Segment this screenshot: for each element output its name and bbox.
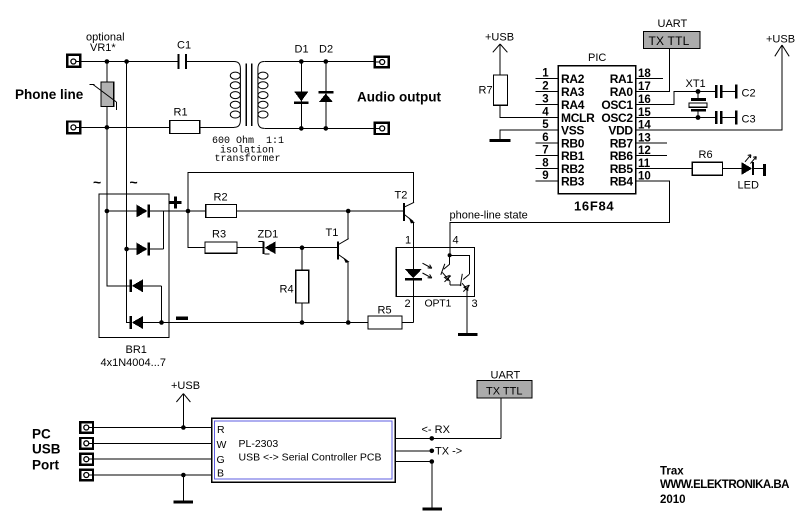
svg-text:VDD: VDD: [608, 123, 633, 137]
svg-text:PC: PC: [32, 426, 51, 441]
transistor T2: [395, 190, 415, 248]
node bridge in1: [105, 209, 110, 214]
node bridge in2: [124, 247, 129, 252]
svg-text:RB1: RB1: [561, 149, 585, 163]
wire C1 to transformer: [187, 61, 234, 63]
power arrow +USB bottom: [176, 394, 190, 428]
wire R3 to ZD1: [237, 247, 263, 249]
node plus junction: [186, 209, 191, 214]
svg-text:ZD1: ZD1: [258, 229, 279, 241]
svg-text:10: 10: [638, 171, 651, 183]
wire line1 to diode3: [107, 211, 130, 286]
svg-text:RA4: RA4: [561, 98, 585, 112]
ground USB: [174, 500, 194, 503]
pin stub 12: [636, 155, 668, 157]
wire secondary bottom rail: [264, 127, 374, 129]
wire line2 to diode4: [127, 249, 130, 323]
opto darlington transistor B: [460, 274, 469, 297]
resistor R6: [692, 149, 722, 175]
svg-text:6: 6: [542, 132, 548, 144]
svg-text:PIC: PIC: [588, 52, 606, 64]
svg-text:R6: R6: [699, 149, 713, 161]
wire R6 to LED: [722, 168, 741, 170]
wire minus rail: [169, 322, 368, 324]
svg-text:1: 1: [405, 235, 411, 247]
svg-text:TX ->: TX ->: [435, 445, 462, 457]
svg-text:R7: R7: [479, 84, 493, 96]
wire RB4 to OPT1 pin4: [450, 181, 669, 247]
capacitor C3: [715, 111, 755, 126]
IC U1 PIC box: [558, 66, 636, 194]
label 600 Ohm isolation transformer: [212, 135, 284, 165]
LED arrows: [745, 155, 756, 164]
wire R7 to MCLR: [500, 105, 558, 117]
svg-text:RB6: RB6: [610, 149, 634, 163]
svg-text:RA0: RA0: [610, 85, 634, 99]
node junction D1 top: [299, 59, 304, 64]
svg-text:VR1*: VR1*: [90, 42, 116, 54]
svg-text:transformer: transformer: [215, 153, 281, 165]
bridge diode 3: [130, 279, 162, 292]
node gnd corner: [430, 459, 435, 464]
terminal USB 1: [80, 422, 95, 433]
terminal audio bottom: [374, 123, 389, 134]
pin names right: [601, 72, 633, 188]
block PL-2303: [212, 418, 396, 482]
capacitor C1: [177, 40, 191, 70]
svg-text:Phone line: Phone line: [15, 87, 84, 102]
pin numbers right: [638, 68, 651, 183]
terminal USB 3: [80, 454, 95, 465]
svg-text:LED: LED: [738, 180, 759, 192]
opto darlington transistor A: [441, 247, 462, 285]
wire VSS to ground: [500, 130, 558, 139]
svg-text:<- RX: <- RX: [422, 424, 451, 436]
svg-text:4: 4: [542, 107, 549, 119]
svg-text:1: 1: [542, 68, 549, 80]
transformer T600 primary: [230, 62, 240, 128]
block TX TTL bottom: [477, 381, 532, 399]
svg-text:~: ~: [93, 174, 101, 190]
wire bridge minus link: [161, 286, 163, 323]
pin numbers left: [542, 68, 549, 183]
svg-text:9: 9: [542, 170, 548, 182]
bridge BR1 box: [99, 194, 169, 338]
svg-text:C3: C3: [742, 113, 756, 125]
transformer T600 secondary: [258, 62, 268, 129]
svg-text:G: G: [217, 454, 225, 466]
wire gnd down: [431, 462, 433, 508]
pin stub 13: [636, 142, 668, 144]
wire USB green: [95, 458, 212, 460]
wire black to ground: [182, 475, 184, 500]
svg-text:+USB: +USB: [485, 31, 514, 43]
svg-text:2010: 2010: [660, 494, 686, 506]
wire USB black: [95, 474, 212, 476]
opto coupling arrows: [423, 263, 432, 278]
node junction D2 top: [324, 59, 329, 64]
pin stubs left unconnected: [536, 79, 559, 182]
wire opto collector link: [450, 255, 470, 274]
wire TX TTL to RX: [500, 398, 502, 438]
svg-text:WWW.ELEKTRONIKA.BA: WWW.ELEKTRONIKA.BA: [660, 479, 789, 491]
wire USB white: [95, 442, 212, 444]
wire TX: [395, 450, 432, 452]
crystal XT1: [686, 78, 708, 118]
svg-text:8: 8: [542, 158, 549, 170]
svg-text:R2: R2: [214, 191, 228, 203]
wire ring to R1: [82, 126, 170, 128]
wire RX: [395, 437, 501, 439]
node junction A1: [105, 59, 110, 64]
node XT1 bottom: [696, 115, 701, 120]
zener diode ZD1: [258, 229, 279, 255]
opto LED: [405, 247, 422, 322]
wire top loop to T2 collector: [188, 172, 414, 211]
wire R5 to OPT1 pin2: [402, 322, 413, 324]
svg-text:B: B: [217, 467, 224, 479]
wire XT1 top to C2: [698, 91, 715, 93]
varistor VR1: [90, 62, 117, 128]
ground serial: [422, 507, 442, 510]
wire bridge plus link: [163, 211, 165, 249]
node bridge minus: [159, 320, 164, 325]
pin names left: [561, 72, 595, 188]
ground VSS: [490, 139, 511, 142]
node T1 emitter junction: [346, 320, 351, 325]
power arrow +USB left: [493, 44, 508, 75]
svg-text:16F84: 16F84: [574, 199, 614, 214]
svg-text:UART: UART: [658, 18, 688, 30]
node R4 bottom junction: [300, 320, 305, 325]
svg-text:7: 7: [542, 145, 548, 157]
node R4 top junction: [300, 245, 305, 250]
transformer T600 core: [246, 64, 252, 126]
resistor R7: [479, 75, 508, 105]
node opto collector junction: [448, 253, 452, 257]
resistor R2: [206, 191, 237, 217]
resistor R5: [368, 304, 402, 329]
capacitor C2: [715, 85, 755, 100]
svg-text:R: R: [217, 424, 225, 436]
block TX TTL top: [643, 32, 700, 49]
svg-text:RB3: RB3: [561, 174, 585, 188]
node junction D2 bottom: [324, 126, 329, 131]
svg-text:BR1: BR1: [126, 344, 147, 356]
svg-text:4: 4: [453, 235, 459, 247]
ground OPT1: [458, 333, 478, 336]
wire OPT1 pin3 to ground: [466, 297, 468, 333]
node +USB junction: [181, 425, 186, 430]
label minus: [176, 317, 188, 321]
wire VDD pin14 to +USB: [636, 45, 783, 130]
terminal USB 2: [80, 438, 95, 449]
wire top rail left: [82, 61, 178, 63]
bridge diode 4: [130, 316, 169, 329]
label PC USB Port: [32, 426, 61, 472]
wire USB red: [95, 427, 212, 429]
svg-text:OPT1: OPT1: [425, 298, 452, 310]
wire bridge plus out: [164, 210, 206, 212]
svg-text:PL-2303: PL-2303: [239, 438, 279, 450]
svg-text:3: 3: [472, 298, 478, 310]
svg-text:XT1: XT1: [686, 78, 706, 90]
svg-text:R4: R4: [280, 284, 294, 296]
svg-text:C1: C1: [177, 40, 191, 52]
power arrow +USB right: [775, 45, 789, 56]
svg-text:Audio output: Audio output: [357, 89, 441, 104]
svg-text:2: 2: [405, 298, 411, 310]
wire secondary top rail: [264, 61, 374, 63]
node RX junction: [430, 436, 435, 441]
svg-text:TX TTL: TX TTL: [486, 385, 522, 397]
wire R2 to T2 base: [237, 210, 404, 212]
wire OSC2 pin15: [636, 117, 716, 119]
svg-text:phone-line state: phone-line state: [450, 209, 528, 221]
wire phone AC line 2 down: [126, 62, 128, 250]
svg-text:T2: T2: [395, 190, 408, 202]
svg-text:W: W: [217, 439, 227, 451]
node XT1 top: [696, 89, 701, 94]
terminal audio top: [374, 57, 389, 68]
node TX end: [430, 449, 435, 454]
wire TX TTL to RA0 pin17: [636, 49, 670, 92]
svg-text:R5: R5: [378, 304, 392, 316]
svg-text:2: 2: [542, 81, 548, 93]
svg-text:+USB: +USB: [766, 34, 795, 46]
label plus: [170, 197, 182, 209]
svg-text:RA1: RA1: [610, 72, 634, 86]
svg-text:~: ~: [130, 174, 138, 190]
wire R1 to transformer: [200, 126, 234, 128]
svg-text:C2: C2: [742, 87, 756, 99]
pin stub 18: [636, 78, 664, 80]
node junction D1 bottom: [299, 126, 304, 131]
svg-text:RA3: RA3: [561, 85, 585, 99]
bridge diode 1: [107, 205, 164, 218]
svg-text:R1: R1: [174, 107, 188, 119]
svg-text:USB: USB: [32, 442, 61, 457]
resistor R3: [205, 229, 237, 254]
wire ZD1 to T1 base: [276, 247, 338, 249]
wire phone AC line 1 down: [106, 127, 108, 211]
svg-text:T1: T1: [326, 227, 339, 239]
terminal phone-line tip: [67, 55, 82, 67]
svg-text:D2: D2: [319, 44, 333, 56]
LED D3: [738, 162, 766, 191]
svg-text:Trax: Trax: [660, 466, 684, 478]
diode D1: [294, 44, 309, 129]
svg-text:R3: R3: [212, 229, 226, 241]
transistor T1: [326, 211, 350, 323]
svg-text:UART: UART: [491, 369, 521, 381]
svg-text:4x1N4004...7: 4x1N4004...7: [101, 357, 166, 369]
svg-text:TX TTL: TX TTL: [649, 34, 690, 48]
svg-text:Port: Port: [32, 458, 60, 473]
svg-text:VSS: VSS: [561, 123, 584, 137]
svg-text:USB <-> Serial Controller PCB: USB <-> Serial Controller PCB: [239, 451, 382, 463]
node T1 collector junction: [346, 209, 351, 214]
svg-text:D1: D1: [295, 44, 309, 56]
node junction A2: [124, 59, 129, 64]
node junction A3: [105, 125, 110, 130]
bridge diode 2: [127, 243, 164, 256]
svg-text:5: 5: [542, 119, 549, 131]
wire gnd out: [395, 461, 432, 463]
label optional VR1*: [86, 32, 125, 54]
node ground junction: [181, 473, 186, 478]
resistor R1: [170, 107, 200, 134]
svg-text:OSC1: OSC1: [601, 98, 633, 112]
diode D2: [319, 44, 334, 129]
resistor R4: [280, 248, 309, 323]
terminal USB 4: [80, 470, 95, 481]
svg-text:RA2: RA2: [561, 72, 585, 86]
svg-text:RB4: RB4: [610, 174, 634, 188]
svg-text:3: 3: [542, 94, 548, 106]
wire RB5 pin11 to R6: [636, 168, 693, 170]
optocoupler OPT1 box: [396, 247, 474, 296]
terminal phone-line ring: [67, 122, 82, 134]
svg-text:+USB: +USB: [171, 380, 200, 392]
wire OSC1 pin16 jog: [636, 92, 699, 105]
wire plus to R3: [188, 211, 205, 248]
